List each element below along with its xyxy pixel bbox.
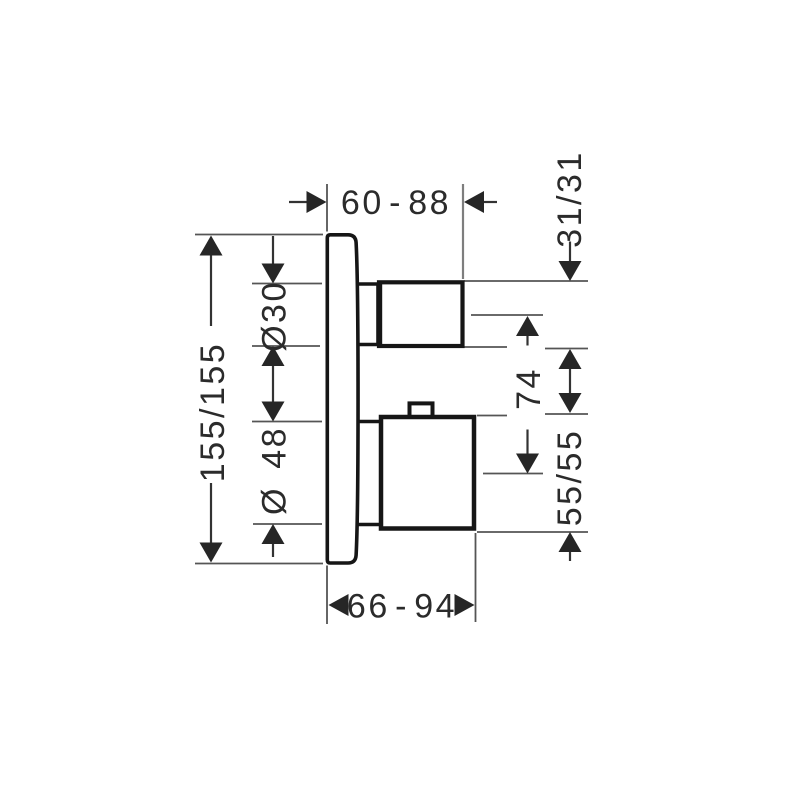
- svg-text:66 - 94: 66 - 94: [347, 588, 457, 626]
- svg-text:Ø30: Ø30: [256, 280, 294, 352]
- svg-text:74: 74: [510, 367, 548, 410]
- svg-text:Ø 48: Ø 48: [256, 426, 294, 515]
- svg-text:31/31: 31/31: [551, 150, 589, 248]
- svg-text:155/155: 155/155: [194, 342, 232, 482]
- svg-text:60 - 88: 60 - 88: [341, 184, 451, 222]
- svg-text:55/55: 55/55: [551, 429, 589, 527]
